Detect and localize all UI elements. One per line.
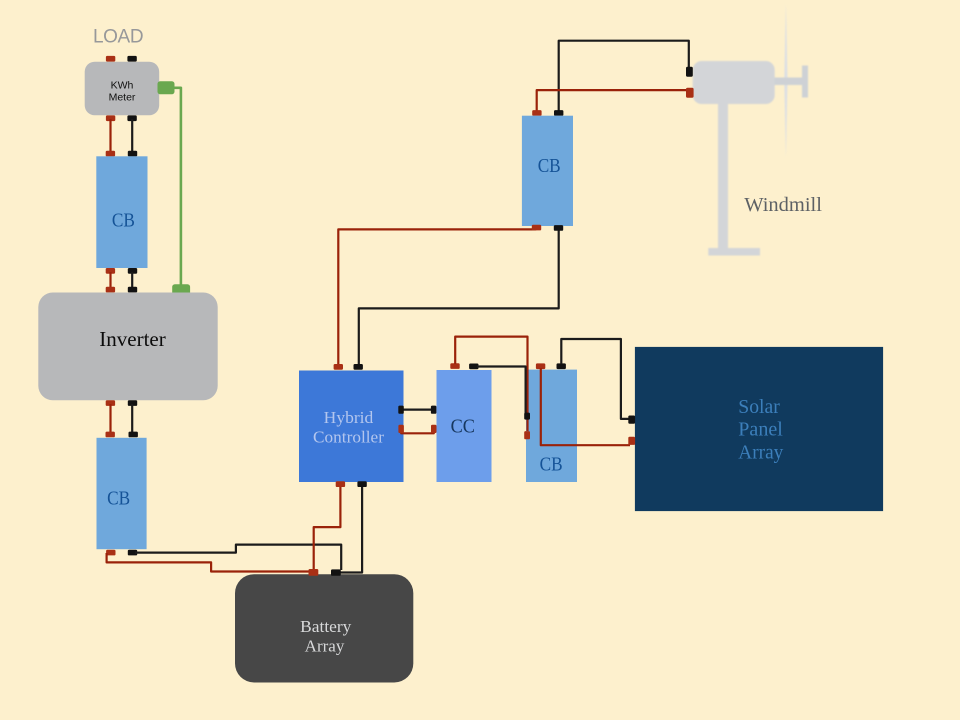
wire black CB2 to battery: [135, 545, 341, 570]
wire black CB5 top to solar panel: [561, 339, 629, 419]
svg-text:KWh: KWh: [111, 80, 134, 92]
svg-text:CB: CB: [538, 155, 561, 177]
svg-text:CB: CB: [107, 487, 130, 509]
svg-text:Array: Array: [305, 637, 345, 656]
CB1 top black terminal: [128, 151, 137, 157]
CC left red terminal: [431, 425, 437, 433]
solar left red terminal: [628, 437, 635, 445]
svg-text:Meter: Meter: [109, 92, 136, 104]
CB1 top red terminal: [106, 151, 115, 157]
wire red CB4 top to windmill: [537, 90, 687, 111]
meter bottom black terminal: [127, 115, 136, 121]
meter top black terminal: [127, 56, 136, 62]
green connector on inverter top: [172, 284, 190, 295]
CB5 top black terminal: [557, 363, 566, 369]
circuit breaker CB2: [97, 438, 147, 549]
CB4 bottom black terminal: [554, 225, 563, 231]
HC top red terminal: [334, 364, 343, 370]
wire black HC to CC link: [401, 409, 434, 411]
CB5 left black terminal: [524, 413, 530, 420]
svg-text:Battery: Battery: [300, 617, 352, 636]
CB2 bottom red terminal: [106, 550, 115, 556]
windmill left red terminal: [686, 88, 694, 98]
battery red terminal (junction): [309, 569, 319, 576]
wire red CB2 to battery junction: [107, 553, 310, 572]
CC top black terminal: [469, 364, 478, 370]
HC right black terminal: [398, 406, 404, 414]
CC left black terminal: [431, 406, 437, 414]
CB4 top red terminal: [532, 110, 541, 116]
wire red HC top to CB4 bottom: [338, 228, 535, 365]
inverter bottom red terminal: [106, 400, 115, 406]
windmill hub bar: [802, 66, 808, 98]
HC bottom red terminal: [336, 481, 345, 487]
KWh Meter M1: [85, 62, 160, 116]
svg-text:Controller: Controller: [313, 427, 384, 446]
wire red inverter to CB2: [109, 404, 111, 433]
wire black HC bottom to battery: [338, 486, 362, 573]
svg-text:CB: CB: [540, 453, 563, 475]
CB1 bottom black terminal: [128, 268, 137, 274]
wire red HC to CC link: [401, 429, 434, 433]
HC bottom black terminal: [357, 481, 366, 487]
inverter top black terminal: [128, 287, 137, 293]
wire red CC top to CB5 left: [455, 337, 527, 431]
solar panel array PV1: [635, 347, 883, 511]
svg-text:CB: CB: [112, 210, 135, 232]
wire black CC top to CB5 left: [477, 367, 526, 414]
svg-text:LOAD: LOAD: [93, 27, 143, 48]
CB2 top black terminal: [129, 432, 138, 438]
windmill shaft: [775, 78, 803, 86]
svg-text:Solar: Solar: [738, 396, 780, 418]
wire black CB4 top to windmill: [559, 41, 689, 111]
CB4 bottom red terminal: [532, 225, 541, 231]
svg-text:CC: CC: [451, 416, 475, 438]
CB2 bottom black terminal: [128, 550, 137, 556]
CB5 top red terminal: [536, 363, 545, 369]
HC top black terminal: [354, 364, 363, 370]
inverter top red terminal: [106, 287, 115, 293]
svg-text:Array: Array: [738, 442, 784, 464]
meter bottom red terminal: [106, 115, 115, 121]
svg-text:Inverter: Inverter: [99, 327, 166, 351]
wire red CB1 to inverter: [109, 272, 111, 289]
windmill left black terminal: [686, 67, 693, 77]
CB1 bottom red terminal: [106, 268, 115, 274]
green wire meter to inverter: [173, 88, 181, 285]
wire black meter to CB1: [131, 119, 133, 153]
wire black inverter to CB2: [131, 404, 133, 433]
windmill base: [708, 248, 760, 256]
CB5 left red terminal: [524, 431, 530, 439]
inverter bottom black terminal: [128, 400, 137, 406]
CB4 top black terminal: [554, 110, 563, 116]
CC top red terminal: [450, 363, 459, 369]
windmill nacelle: [693, 61, 775, 104]
wire red CB5 top to solar panel: [541, 368, 630, 445]
wire black CB1 to inverter: [131, 272, 133, 289]
circuit breaker CB1: [96, 156, 147, 268]
wire red HC bottom to battery junction: [314, 486, 341, 570]
svg-text:Hybrid: Hybrid: [324, 408, 374, 427]
meter top red terminal: [106, 56, 115, 62]
solar left black terminal: [628, 416, 635, 424]
svg-text:Windmill: Windmill: [744, 194, 822, 216]
battery black terminal: [331, 569, 341, 575]
inverter U1: [38, 293, 217, 401]
windmill tower: [718, 104, 728, 249]
windmill blade (vertical thin): [784, 3, 787, 158]
HC right red terminal: [398, 425, 404, 433]
CB2 top red terminal: [106, 432, 115, 438]
green connector on meter right: [158, 81, 175, 94]
wire black CB4 bottom to HC top: [359, 229, 559, 365]
svg-text:Panel: Panel: [738, 419, 783, 441]
wire red meter to CB1: [109, 119, 111, 153]
battery array B1: [235, 574, 413, 682]
